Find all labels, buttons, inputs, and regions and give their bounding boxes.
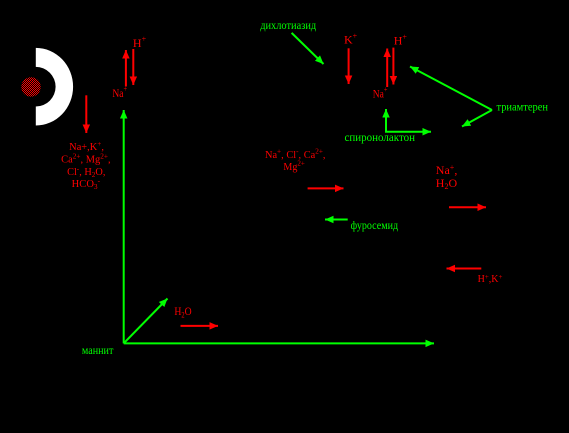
arrow loop reabsorb right	[308, 187, 344, 189]
arrow furosemide left	[325, 219, 348, 221]
Bowman capsule (white crescent)	[36, 48, 73, 126]
arrow triamterene lower	[462, 110, 492, 127]
svg-text:триамтерен: триамтерен	[497, 100, 549, 114]
arrow Na+ reabsorb up	[125, 50, 127, 87]
arrow triamterene upper	[410, 67, 492, 111]
svg-text:маннит: маннит	[82, 343, 114, 357]
arrow dichlothiazide to tubule	[292, 33, 324, 64]
arrow Na+ H2O right	[449, 206, 486, 208]
arrow spironolactone right	[385, 131, 431, 133]
arrow Na+ distal up	[386, 49, 388, 88]
arrow mannitol diagonal	[124, 299, 168, 344]
wire loop of Henle vertical	[123, 110, 125, 343]
arrow H+ secrete down	[132, 49, 134, 85]
arrow K+ secrete down	[348, 48, 350, 84]
arrow H+ K+ left	[447, 268, 482, 270]
wire collecting duct horizontal	[124, 342, 434, 344]
arrow spironolactone up	[385, 109, 387, 132]
glomerulus (red dithered circle)	[21, 77, 40, 96]
arrow H+ distal down	[392, 48, 394, 85]
svg-text:Na+,: Na+,	[436, 163, 458, 177]
svg-text:дихлотиазид: дихлотиазид	[260, 18, 316, 32]
arrow H2O right	[181, 325, 219, 327]
svg-text:фуросемид: фуросемид	[351, 218, 399, 232]
arrow filtrate down	[85, 95, 87, 133]
svg-text:спиронолактон: спиронолактон	[345, 130, 416, 144]
